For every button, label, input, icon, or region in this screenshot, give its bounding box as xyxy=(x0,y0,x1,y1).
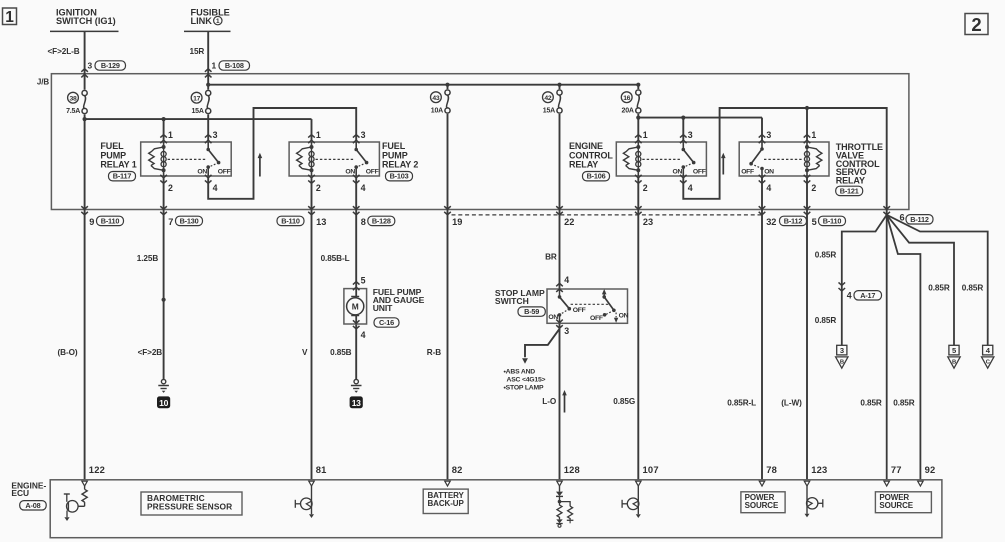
svg-text:0.85R: 0.85R xyxy=(962,284,984,293)
svg-text:(B-O): (B-O) xyxy=(58,348,78,357)
svg-text:81: 81 xyxy=(316,464,327,475)
svg-text:3: 3 xyxy=(564,326,569,336)
svg-text:32: 32 xyxy=(766,217,776,227)
svg-text:SWITCH (IG1): SWITCH (IG1) xyxy=(56,16,116,26)
svg-text:B-121: B-121 xyxy=(840,186,859,195)
svg-text:9: 9 xyxy=(89,217,94,227)
svg-text:B-103: B-103 xyxy=(390,172,409,181)
svg-text:UNIT: UNIT xyxy=(373,303,393,313)
svg-text:122: 122 xyxy=(89,464,105,475)
svg-text:<F>2L-B: <F>2L-B xyxy=(48,47,80,56)
svg-text:4: 4 xyxy=(564,275,569,285)
svg-text:B: B xyxy=(952,359,956,365)
svg-text:1: 1 xyxy=(811,130,816,140)
svg-text:B-128: B-128 xyxy=(372,216,391,225)
svg-text:15R: 15R xyxy=(190,47,205,56)
svg-text:16: 16 xyxy=(623,95,630,102)
svg-text:123: 123 xyxy=(811,464,827,475)
svg-text:OFF: OFF xyxy=(218,168,231,175)
svg-text:13: 13 xyxy=(316,217,326,227)
svg-text:4: 4 xyxy=(361,330,366,340)
svg-text:0.85G: 0.85G xyxy=(613,397,635,406)
svg-text:R-B: R-B xyxy=(427,348,441,357)
svg-text:0.85R-L: 0.85R-L xyxy=(727,398,756,407)
svg-text:0.85R: 0.85R xyxy=(815,316,837,325)
svg-text:J/B: J/B xyxy=(37,78,49,87)
svg-text:2: 2 xyxy=(168,183,173,193)
svg-text:ON: ON xyxy=(619,313,629,320)
svg-text:15A: 15A xyxy=(543,107,555,114)
svg-text:C-16: C-16 xyxy=(379,318,394,327)
svg-text:L-O: L-O xyxy=(542,397,557,406)
svg-text:2: 2 xyxy=(811,183,816,193)
svg-text:B: B xyxy=(840,359,844,365)
svg-text:1: 1 xyxy=(316,130,321,140)
svg-text:0.85R: 0.85R xyxy=(928,284,950,293)
svg-text:0.85B-L: 0.85B-L xyxy=(321,254,350,263)
svg-text:42: 42 xyxy=(544,95,551,102)
svg-text:B-112: B-112 xyxy=(910,215,929,224)
svg-text:3: 3 xyxy=(688,130,693,140)
svg-text:•STOP LAMP: •STOP LAMP xyxy=(504,384,544,391)
svg-text:82: 82 xyxy=(452,464,463,475)
svg-text:5: 5 xyxy=(812,217,817,227)
svg-text:V: V xyxy=(302,348,308,357)
svg-text:B-110: B-110 xyxy=(101,216,120,225)
svg-text:ON: ON xyxy=(548,314,558,321)
svg-text:B-117: B-117 xyxy=(113,172,132,181)
svg-text:ECU: ECU xyxy=(11,488,29,498)
svg-text:128: 128 xyxy=(564,464,580,475)
svg-text:RELAY: RELAY xyxy=(569,159,598,169)
svg-text:M: M xyxy=(352,301,359,311)
svg-text:<F>2B: <F>2B xyxy=(138,348,163,357)
svg-text:38: 38 xyxy=(70,95,77,102)
svg-text:2: 2 xyxy=(316,183,321,193)
svg-text:22: 22 xyxy=(564,217,574,227)
svg-text:107: 107 xyxy=(643,464,659,475)
svg-text:OFF: OFF xyxy=(573,307,586,314)
svg-text:6: 6 xyxy=(900,213,905,223)
svg-text:ON: ON xyxy=(345,168,355,175)
svg-text:43: 43 xyxy=(432,95,439,102)
svg-text:3: 3 xyxy=(361,130,366,140)
svg-text:2: 2 xyxy=(971,14,981,35)
svg-text:B-130: B-130 xyxy=(180,216,199,225)
svg-text:PRESSURE SENSOR: PRESSURE SENSOR xyxy=(147,502,232,512)
svg-text:1: 1 xyxy=(643,130,648,140)
svg-text:OFF: OFF xyxy=(366,168,379,175)
svg-text:1.25B: 1.25B xyxy=(137,254,159,263)
svg-text:2: 2 xyxy=(643,183,648,193)
svg-text:1: 1 xyxy=(216,18,220,25)
svg-text:3: 3 xyxy=(88,60,93,70)
svg-text:BACK-UP: BACK-UP xyxy=(428,499,465,508)
svg-text:B-106: B-106 xyxy=(587,172,606,181)
svg-text:SWITCH: SWITCH xyxy=(495,296,529,306)
svg-text:LINK: LINK xyxy=(191,16,213,26)
svg-text:RELAY 2: RELAY 2 xyxy=(382,159,418,169)
svg-text:RELAY: RELAY xyxy=(836,176,865,186)
svg-text:20A: 20A xyxy=(622,107,634,114)
svg-text:1: 1 xyxy=(5,9,14,26)
svg-text:ON: ON xyxy=(197,168,207,175)
svg-text:B-59: B-59 xyxy=(524,307,539,316)
svg-text:4: 4 xyxy=(688,183,693,193)
svg-text:B-112: B-112 xyxy=(784,216,803,225)
svg-text:7: 7 xyxy=(168,217,173,227)
svg-text:B-110: B-110 xyxy=(281,216,300,225)
svg-text:7.5A: 7.5A xyxy=(66,108,80,115)
svg-text:ASC <4G15>: ASC <4G15> xyxy=(507,376,546,383)
svg-text:0.85R: 0.85R xyxy=(860,398,882,407)
svg-text:•ABS AND: •ABS AND xyxy=(504,368,536,375)
svg-text:ON: ON xyxy=(672,168,682,175)
svg-text:92: 92 xyxy=(925,464,936,475)
svg-text:ON: ON xyxy=(764,168,774,175)
svg-text:4: 4 xyxy=(847,291,852,301)
svg-text:4: 4 xyxy=(766,183,771,193)
svg-text:23: 23 xyxy=(643,217,653,227)
svg-text:0.85R: 0.85R xyxy=(893,398,915,407)
svg-text:3: 3 xyxy=(840,346,844,355)
svg-text:5: 5 xyxy=(361,275,366,285)
svg-text:0.85B: 0.85B xyxy=(330,348,352,357)
svg-text:SOURCE: SOURCE xyxy=(879,501,913,510)
svg-text:17: 17 xyxy=(193,95,200,102)
svg-text:77: 77 xyxy=(891,464,902,475)
svg-text:B-129: B-129 xyxy=(101,61,120,70)
svg-text:A-17: A-17 xyxy=(860,291,875,300)
svg-text:OFF: OFF xyxy=(590,315,603,322)
svg-text:10A: 10A xyxy=(431,107,443,114)
svg-text:B-110: B-110 xyxy=(823,216,842,225)
svg-text:RELAY 1: RELAY 1 xyxy=(100,159,136,169)
svg-text:B-108: B-108 xyxy=(225,61,244,70)
svg-text:78: 78 xyxy=(766,464,777,475)
svg-text:OFF: OFF xyxy=(693,168,706,175)
svg-text:3: 3 xyxy=(766,130,771,140)
svg-text:4: 4 xyxy=(361,183,366,193)
svg-text:(L-W): (L-W) xyxy=(781,398,802,407)
svg-text:19: 19 xyxy=(452,217,462,227)
svg-text:3: 3 xyxy=(213,130,218,140)
svg-text:4: 4 xyxy=(213,183,218,193)
svg-text:8: 8 xyxy=(361,217,366,227)
svg-text:13: 13 xyxy=(352,398,361,408)
svg-text:15A: 15A xyxy=(191,108,203,115)
svg-text:BR: BR xyxy=(545,252,557,261)
svg-text:1: 1 xyxy=(168,130,173,140)
svg-text:0.85R: 0.85R xyxy=(815,250,837,259)
svg-text:A-08: A-08 xyxy=(25,501,40,510)
svg-text:OFF: OFF xyxy=(741,168,754,175)
svg-text:1: 1 xyxy=(212,60,217,70)
svg-text:10: 10 xyxy=(159,398,168,408)
svg-text:SOURCE: SOURCE xyxy=(745,501,779,510)
